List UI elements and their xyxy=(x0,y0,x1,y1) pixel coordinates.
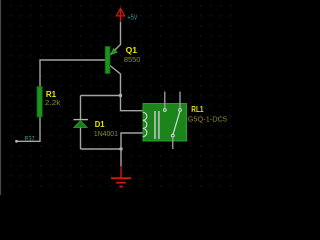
pin circle NC xyxy=(179,109,182,112)
relay pin top-left xyxy=(164,92,166,109)
svg-text:RL1: RL1 xyxy=(191,104,203,114)
wire D1 vertical xyxy=(80,96,82,121)
wire R1 bottom to P37 end xyxy=(17,117,41,141)
svg-text:+5V: +5V xyxy=(127,13,137,22)
junction ground node xyxy=(119,147,122,150)
wire end dot P37 xyxy=(15,140,18,143)
resistor R1 xyxy=(37,87,42,118)
svg-text:P37: P37 xyxy=(25,134,35,143)
pin circle NO xyxy=(163,109,166,112)
wire base Q1 xyxy=(40,60,106,87)
wire relay coil bottom xyxy=(121,133,144,149)
wire collector down xyxy=(110,66,144,111)
window left edge xyxy=(0,0,1,195)
diode D1 xyxy=(74,120,89,128)
svg-text:D1: D1 xyxy=(95,119,105,129)
svg-text:8550: 8550 xyxy=(124,55,140,64)
svg-text:2.2k: 2.2k xyxy=(45,98,61,107)
svg-text:Q1: Q1 xyxy=(126,45,138,55)
ground xyxy=(111,166,131,187)
wire emitter to +5V xyxy=(111,22,121,54)
junction collector/D1 xyxy=(119,94,122,97)
switch arm xyxy=(173,111,180,134)
svg-text:1N4001: 1N4001 xyxy=(94,129,118,138)
power +5V terminal xyxy=(116,8,124,22)
pin circle common xyxy=(171,134,174,137)
svg-text:G5Q-1-DC5: G5Q-1-DC5 xyxy=(188,114,227,123)
transistor Q1 xyxy=(105,47,116,74)
core lines xyxy=(154,111,156,139)
coil arcs xyxy=(143,112,147,136)
wire D1 top xyxy=(81,95,121,97)
wire ground stem gray xyxy=(120,149,122,167)
wire bottom D1 to ground node xyxy=(81,148,122,150)
relay RL1 xyxy=(143,104,187,142)
relay pin top-right xyxy=(179,92,181,109)
relay pin bottom xyxy=(172,137,174,149)
